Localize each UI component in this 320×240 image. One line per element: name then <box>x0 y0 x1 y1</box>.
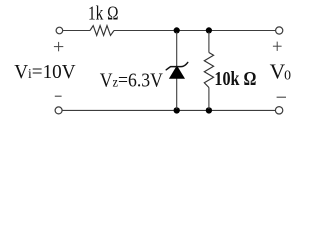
node junction dot top of zener <box>174 27 180 33</box>
node junction dot top of 10k <box>206 27 212 33</box>
minus sign right <box>277 96 286 98</box>
svg-text:V0: V0 <box>270 59 292 83</box>
zener diode D1 cathode bar with bent ends <box>166 62 188 69</box>
terminal top-right <box>276 27 283 34</box>
terminal top-left <box>56 27 63 34</box>
svg-text:1k Ω: 1k Ω <box>88 3 119 25</box>
zener diode D1 triangle <box>170 66 185 78</box>
node junction dot bottom of 10k <box>206 107 212 113</box>
terminal bottom-left <box>55 107 62 114</box>
svg-text:Vi=10V: Vi=10V <box>14 62 75 83</box>
bottom rail wire <box>62 109 275 111</box>
node junction dot bottom of zener <box>174 107 180 113</box>
label Vi=10V <box>14 62 75 83</box>
wire 10k branch vertical <box>208 32 210 109</box>
svg-text:10k Ω: 10k Ω <box>214 68 256 90</box>
plus sign right <box>273 42 282 51</box>
label Vz=6.3V <box>100 69 164 91</box>
plus sign left <box>54 42 63 51</box>
resistor R2 10k zigzag <box>204 53 213 88</box>
resistor R1 1k zigzag <box>90 26 114 36</box>
svg-text:Vz=6.3V: Vz=6.3V <box>100 69 164 91</box>
terminal bottom-right <box>275 107 282 114</box>
wire zener branch vertical <box>176 32 178 109</box>
top rail wire <box>63 30 276 32</box>
minus sign left <box>55 95 62 97</box>
